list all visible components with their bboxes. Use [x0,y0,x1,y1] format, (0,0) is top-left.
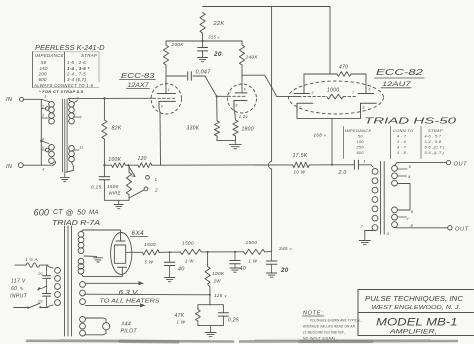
label 2.0 [338,170,347,176]
label 470 [339,65,348,71]
svg-text:v.: v. [225,293,228,298]
svg-text:17.5K: 17.5K [293,153,308,159]
tube V3 plate structure [114,237,126,271]
svg-text:6: 6 [369,88,371,92]
svg-text:.01: .01 [37,299,43,304]
label 315v node voltage [208,35,221,40]
wire switch to primary [48,305,53,308]
svg-text:#44: #44 [122,322,132,328]
pin T2-8 [411,223,414,228]
table PEERLESS row 50 [41,60,86,65]
svg-text:7: 7 [352,91,354,95]
resistor 120 feedback [129,163,161,168]
transformer T1 secondary winding upper [69,102,75,124]
wire V1a cathode down [159,108,161,165]
svg-text:TRIAD R-7A: TRIAD R-7A [52,220,100,227]
wire V3 cathode out [126,251,143,253]
capacitor 0.25 bias bypass [210,305,229,326]
ground bias network [205,333,216,337]
svg-text:6X4: 6X4 [132,230,145,237]
transformer T3 HV secondary lower [78,259,84,275]
svg-text:IN: IN [6,164,13,170]
svg-text:OUT: OUT [454,161,468,167]
svg-text:1000: 1000 [327,88,339,94]
label 120 [138,156,147,162]
svg-text:INPUT: INPUT [10,294,28,300]
node 82K bottom junction [103,164,105,166]
tube V2 cathode left [297,103,313,112]
label 117 V [11,279,26,285]
wire HV center tap [84,255,97,257]
title model [376,317,458,329]
svg-text:* FOR CT STRAP 8-5: * FOR CT STRAP 8-5 [39,89,84,94]
svg-text:3 - 8 ,: 3 - 8 , [397,151,409,155]
svg-text:1-4 , 3-6 *: 1-4 , 3-6 * [67,66,90,71]
svg-text:1500: 1500 [107,184,119,189]
tube V1a plate [157,76,175,94]
label IN upper [6,97,13,103]
wire IN upper to transformer [24,98,42,100]
svg-text:11 MEGOHM VOLTMETER,: 11 MEGOHM VOLTMETER, [303,330,345,335]
label IN lower [6,164,13,170]
pin T2-5 stub [397,164,411,169]
svg-text:ALWAYS CONNECT TO 1-6: ALWAYS CONNECT TO 1-6 [33,83,94,88]
label #44 PILOT [121,322,138,335]
label TRIAD HS-50 title [364,116,456,126]
title block frame [358,290,474,336]
label 345v [279,246,293,252]
wire HV top to 6X4 plate [81,230,121,237]
label 40 second [240,266,247,272]
tube V1b cathode [234,101,247,111]
pin T2-2 [360,224,364,229]
switch S1 line [14,303,48,308]
svg-text:AVERAGE VALUES READ ON AN: AVERAGE VALUES READ ON AN [302,324,355,329]
svg-text:TO ALL HEATERS: TO ALL HEATERS [100,299,161,305]
svg-text:120: 120 [138,156,147,162]
svg-text:40: 40 [178,267,185,273]
svg-text:6: 6 [80,116,82,120]
resistor 470 plate parasitic [304,72,366,77]
svg-text:10 W: 10 W [294,170,306,175]
svg-text:12AU7: 12AU7 [382,81,411,88]
pin T1-6 stub [74,116,81,120]
ground V1b cathode network [229,141,241,149]
pin T1-7 secondary top [74,97,78,103]
svg-text:2: 2 [311,91,314,95]
label 100K [108,157,121,163]
wire bias network bottom [198,326,224,333]
svg-text:.01: .01 [37,271,43,276]
pin V2 plate 6 [369,88,371,92]
svg-text:600: 600 [34,208,50,218]
pin T2-4 stub [397,174,411,179]
svg-text:CONN TO: CONN TO [393,128,413,133]
pin T1-5 stub with lug [41,146,49,152]
svg-text:200K: 200K [171,42,185,48]
tube V2 plate right [358,74,374,94]
label 100K 2W [212,271,225,284]
svg-text:IMPEDANCE: IMPEDANCE [345,128,372,133]
label 1800 [242,127,254,133]
wire output node to cap [331,164,354,166]
switch arm from junction [129,166,136,177]
pin V1b plate 6 [244,88,246,92]
pin T2-1 [363,159,366,164]
label 168v output voltage [314,133,328,138]
tube V1a ECC-83 section A envelope [151,84,181,114]
svg-text:v.: v. [324,134,327,138]
svg-text:240K: 240K [245,55,259,61]
table TRIAD row 150 [357,140,442,144]
label 20 decoupling [213,51,222,58]
svg-text:v.: v. [290,246,293,251]
label 0.25 bias [228,318,239,324]
svg-text:4 - 7: 4 - 7 [397,145,407,149]
svg-text:345: 345 [279,246,288,252]
svg-text:250: 250 [356,145,365,149]
svg-text:1500: 1500 [144,242,156,248]
label 1500 5W [144,242,156,265]
label OUT lower [455,227,469,233]
table PEERLESS row 150 [40,66,90,71]
label ECC-83 [120,71,156,80]
wire IN lower to transformer [23,162,55,166]
label 47K 1W [175,313,186,325]
wire feedback to output node [309,164,332,166]
svg-text:200: 200 [38,72,47,77]
tube V1a grid dashed [153,97,175,99]
svg-text:5: 5 [42,146,44,150]
label 17.5K [293,153,308,159]
label strap footnote [39,89,84,94]
tube V2 cathode right [361,103,377,112]
pin V1b cathode 8 [236,104,238,108]
tube V2 plate left [294,74,310,94]
tube V1a cathode [159,101,176,108]
terminal OUT upper [446,160,450,164]
svg-text:WIRE: WIRE [109,191,121,196]
svg-text:1: 1 [45,95,47,99]
svg-text:3-4 , 5-8: 3-4 , 5-8 [425,140,442,144]
wire cathode network ground bus [217,140,236,142]
wire B+ rail right drop [329,7,331,75]
tube V1b grid dashed [217,95,246,97]
svg-text:100K: 100K [212,271,225,277]
transformer T2 secondary upper [392,166,398,187]
label 1500 WIRE [107,184,121,196]
wire heater bottom arrow [85,303,145,307]
label fuse rating [25,257,38,262]
label 82K [112,126,122,132]
wire filter node 3 B+ [265,251,272,253]
svg-text:1: 1 [168,88,170,92]
resistor 1500 1W filter B [244,249,265,254]
svg-text:5-6 ,(L.T.): 5-6 ,(L.T.) [425,151,445,155]
wire grid node to V1a grid [103,97,152,99]
table TRIAD row 600 [357,151,445,155]
pin T1-4 [43,168,45,172]
svg-text:1 ½ A: 1 ½ A [25,257,38,262]
svg-text:PILOT: PILOT [121,329,138,335]
wire T1 primary feed vertical [40,99,42,165]
label ECC-82 [375,67,425,78]
terminal contact 1 [146,176,158,183]
svg-text:2: 2 [41,105,44,109]
table TRIAD row 50 [358,135,442,139]
label 240K [245,55,259,61]
svg-text:STRAP: STRAP [428,128,443,133]
svg-text:@: @ [66,208,74,217]
ground line filter [37,286,47,291]
label OUT upper [454,161,468,167]
transformer T2 core [381,162,385,235]
label 22K [213,21,225,27]
wire T2 to OUT lower [395,227,448,229]
svg-text:WEST ENGLEWOOD, N. J.: WEST ENGLEWOOD, N. J. [372,305,461,311]
svg-text:47K: 47K [175,313,185,319]
terminal contact 2 [144,187,158,193]
svg-text:-7: -7 [405,217,410,222]
svg-text:50: 50 [358,135,363,139]
svg-text:1-8 , 2-6: 1-8 , 2-6 [67,60,86,65]
svg-text:TRIAD HS-50: TRIAD HS-50 [364,116,456,126]
terminal IN upper [20,97,24,101]
svg-text:150: 150 [40,66,48,71]
capacitor 0.25 feedback [99,165,110,200]
capacitor .01 line upper [43,265,51,293]
svg-text:1: 1 [303,88,305,92]
svg-text:330K: 330K [187,126,200,132]
note line 2 [302,324,355,329]
svg-text:CT: CT [53,209,63,216]
capacitor 2.0 output coupling [354,160,358,169]
svg-text:2: 2 [360,224,364,229]
resistor 240K plate load V1b [239,41,244,75]
svg-text:6: 6 [244,88,246,92]
note heading [303,311,325,317]
transformer T3 primary winding [55,268,61,306]
wire follower output drop [331,118,333,164]
resistor 1500 wirewound [126,165,131,200]
svg-text:3 - 6: 3 - 6 [397,140,407,144]
transformer T1 primary winding lower [41,141,54,164]
label .01 lower [37,299,43,304]
resistor 330K grid return [214,96,219,140]
svg-text:20: 20 [280,267,289,274]
svg-text:2-4 , 7-5: 2-4 , 7-5 [66,72,86,77]
svg-text:1 W: 1 W [177,320,186,325]
svg-text:6.3 V.: 6.3 V. [119,291,140,297]
svg-text:50: 50 [41,60,47,65]
svg-text:0.25: 0.25 [91,185,102,191]
pin V2 grid 2 [311,91,314,95]
label TO ALL HEATERS [100,299,161,305]
wire cap to T2 primary [358,165,373,167]
svg-text:8: 8 [363,106,365,110]
table PEERLESS row 200 [38,72,87,77]
title amplifier [389,329,437,336]
svg-text:20: 20 [213,51,222,58]
transformer T1 core [62,99,67,172]
svg-text:2W: 2W [213,279,222,284]
svg-text:100K: 100K [108,157,121,163]
wire T2 primary bottom to ground [365,231,373,240]
transformer T1 primary winding upper [41,99,54,124]
pin T1-11 stub [74,146,83,151]
svg-text:MA: MA [89,209,99,216]
svg-text:150: 150 [357,140,365,144]
scan artifact bottom streak [27,340,457,342]
svg-text:600: 600 [39,77,47,82]
pin V1a cathode 3 [161,104,163,108]
svg-text:ECC-83: ECC-83 [121,71,156,80]
svg-text:1: 1 [155,177,158,182]
ground 40uF second [230,268,240,272]
label 1500 1W A [182,241,194,264]
svg-text:40: 40 [240,266,247,272]
tube V1b ECC-83 section B envelope [228,84,257,113]
svg-text:11: 11 [80,146,84,150]
transformer T2 primary winding [372,169,378,231]
svg-text:IMPEDANCE: IMPEDANCE [35,53,64,58]
pin V1b grid 7 [229,91,231,95]
label 12AX7 [127,83,150,89]
transformer T2 secondary lower [392,207,398,228]
capacitor 20uF decoupling [198,41,208,58]
label 0.25 [91,185,102,191]
wire 115v node drop [209,294,211,305]
wire heater top arrow [85,281,143,285]
svg-text:4: 4 [43,168,45,172]
svg-text:60 ∿: 60 ∿ [11,286,24,292]
label 115v [214,293,228,299]
svg-text:115: 115 [214,293,223,299]
resistor 47K bias bleeder [196,305,210,326]
svg-text:1 W: 1 W [185,259,194,264]
svg-text:4-6 , 5-7: 4-6 , 5-7 [425,135,442,139]
capacitor 0.047 coupling [166,72,205,80]
wire HV bottom to 6X4 plate [81,271,122,277]
wire feedback run [161,164,293,166]
svg-text:v.: v. [218,36,221,40]
svg-text:5 W: 5 W [145,260,154,265]
svg-text:IN: IN [6,97,13,103]
label .01 upper [37,271,43,276]
resistor 200K plate load V1a [163,41,168,76]
wire heater center tap to 115v [85,293,210,296]
svg-text:PEERLESS K-241-D: PEERLESS K-241-D [35,45,105,52]
tube V3 6X4 envelope [111,233,132,275]
ground T2 primary [359,241,370,245]
svg-text:0.25: 0.25 [228,318,239,324]
wire V1b plate to follower grid [242,75,299,96]
svg-text:3: 3 [300,106,302,110]
pin V1a plate 1 [168,88,170,92]
capacitor 20uF output filter [266,252,277,273]
ground T1 core shield [60,172,69,182]
tube V1b plate [235,75,247,93]
fuse F1 [15,263,48,267]
table TRIAD HS-50 dividers [344,127,422,159]
transformer T3 HV secondary upper [78,232,84,254]
title company name [365,294,464,303]
table PEERLESS row 600 [39,77,87,82]
note line 3 [303,330,345,335]
ground 20uF [267,273,277,277]
wire feedback ground bus [104,199,129,201]
label 6.3 V [119,291,140,297]
resistor 1500 1W filter A [180,249,201,254]
svg-text:1 W: 1 W [249,259,258,264]
svg-text:1500: 1500 [246,240,258,246]
wire filter node 1 [159,251,180,253]
ground 40uF first [165,278,175,282]
pin V2 cathode 3 [300,106,302,110]
label 200K [171,42,185,48]
pin T1-1 [45,95,47,99]
label 60 cycles [11,286,24,292]
svg-text:1500: 1500 [182,241,194,247]
label PEERLESS K-241-D title [35,45,105,52]
wire 1500 to contact 2 [130,190,144,198]
transformer T3 heater winding [80,282,86,305]
label 1.2v cathode voltage [239,114,249,119]
wire T2 to OUT upper [395,163,447,166]
svg-text:MODEL MB-1: MODEL MB-1 [376,317,458,329]
wire V2 cathode bus [297,112,361,118]
svg-text:50: 50 [77,208,86,217]
transformer T1 secondary winding lower [69,146,75,163]
table TRIAD header [345,128,443,133]
pin T2-7 stub [397,217,409,222]
svg-text:1800: 1800 [242,127,254,133]
svg-text:3: 3 [42,114,44,118]
table PEERLESS strap table frame [32,52,99,88]
svg-text:470: 470 [339,65,348,71]
svg-text:1: 1 [363,159,366,164]
svg-text:NOTE:: NOTE: [303,311,323,317]
label INPUT [10,294,28,300]
label 6X4 [131,230,149,237]
wire T1 secondary bottom return [66,162,73,172]
resistor 100K 2W bleeder [205,252,210,295]
label 600 CT at 50 MA [34,208,99,218]
svg-text:7: 7 [229,91,231,95]
resistor 22K B+ dropper [200,13,205,42]
resistor 1000 grid coupling [299,94,357,99]
ground decoupling cap [198,58,208,62]
capacitor .01 line lower [43,294,51,308]
resistor 17.5K feedback [293,162,310,168]
svg-text:1.2v: 1.2v [239,114,249,119]
pin V2 cathode 8 [363,106,365,110]
resistor 1500 5W filter [142,250,159,255]
terminal IN lower [18,163,23,168]
svg-text:22K: 22K [213,21,225,27]
svg-text:117 V: 117 V [11,279,26,285]
label 10W [294,170,306,175]
strap jumper T2 [397,184,410,211]
pin V2 plate 1 [303,88,305,92]
svg-text:VOLTAGES SHOWN ARE TYPICAL,: VOLTAGES SHOWN ARE TYPICAL, [310,318,362,323]
svg-text:82K: 82K [112,126,122,132]
table PEERLESS header row [35,53,97,58]
pin T1-8 [40,138,44,143]
node feedback junction [127,164,129,166]
wire B+ riser from supply [268,7,271,252]
pin T1-3 [42,114,44,118]
